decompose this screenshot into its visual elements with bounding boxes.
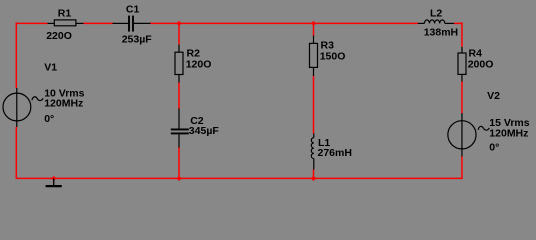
wire right vertical upper xyxy=(461,22,463,47)
wire C2 to bottom xyxy=(178,147,180,178)
svg-text:150O: 150O xyxy=(320,51,346,63)
capacitor C2 xyxy=(171,109,189,148)
node junction top R2 xyxy=(176,21,181,26)
inductor L2 xyxy=(418,20,454,24)
svg-text:120O: 120O xyxy=(186,59,212,71)
wire between R3 and L1 xyxy=(313,76,315,135)
source V1 xyxy=(3,88,43,127)
svg-text:138mH: 138mH xyxy=(424,27,458,39)
svg-text:0°: 0° xyxy=(44,113,54,125)
source V2 xyxy=(448,113,489,157)
node junction bottom L1 xyxy=(311,176,316,181)
svg-text:253µF: 253µF xyxy=(122,33,153,45)
wire top-left segment xyxy=(16,22,47,24)
wire right vertical between R4 and V2 xyxy=(461,81,463,113)
svg-text:V2: V2 xyxy=(487,90,500,102)
resistor R4 xyxy=(458,47,466,82)
svg-text:220O: 220O xyxy=(46,30,72,42)
wire between R2 and C2 xyxy=(178,82,180,109)
wire L2 to top-right corner xyxy=(454,22,462,24)
svg-text:C1: C1 xyxy=(126,4,140,16)
resistor R3 xyxy=(310,36,318,77)
svg-text:276mH: 276mH xyxy=(318,147,352,159)
node junction bottom C2 xyxy=(176,176,181,181)
inductor L1 xyxy=(311,134,313,170)
wire bottom xyxy=(16,177,462,179)
svg-text:120MHz: 120MHz xyxy=(489,127,528,139)
svg-text:R1: R1 xyxy=(58,8,72,20)
svg-text:345µF: 345µF xyxy=(189,125,220,137)
wire between R1 and C1 xyxy=(83,22,113,24)
wire right vertical lower xyxy=(461,156,463,179)
svg-text:120MHz: 120MHz xyxy=(44,98,83,110)
wire between C1 and L2 xyxy=(150,22,418,24)
node junction ground xyxy=(51,176,56,181)
resistor R1 xyxy=(48,20,84,26)
svg-text:0°: 0° xyxy=(489,141,499,153)
capacitor C1 xyxy=(113,16,151,32)
wire branch R3 top xyxy=(313,23,315,36)
wire left vertical lower xyxy=(15,127,17,179)
svg-text:L2: L2 xyxy=(430,7,442,19)
svg-text:200O: 200O xyxy=(468,59,494,71)
wire left vertical upper xyxy=(15,22,17,88)
node junction top R3 xyxy=(311,21,316,26)
resistor R2 xyxy=(175,45,183,83)
ground xyxy=(46,179,62,187)
svg-text:V1: V1 xyxy=(44,61,57,73)
wire branch R2 top xyxy=(178,23,180,45)
wire L1 to bottom xyxy=(313,169,315,178)
